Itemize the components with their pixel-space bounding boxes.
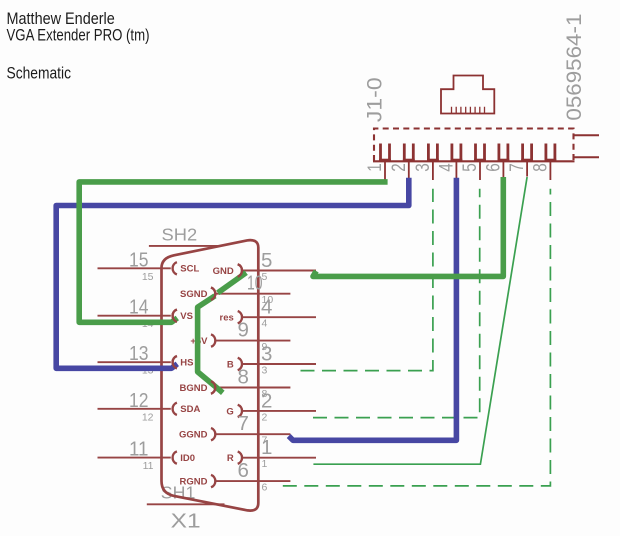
svg-text:X1: X1 [171,511,201,533]
svg-text:2: 2 [261,389,272,412]
svg-text:0569564-1: 0569564-1 [563,14,586,121]
svg-text:J1-0: J1-0 [364,77,387,122]
svg-text:11: 11 [143,460,154,472]
svg-text:2: 2 [262,411,268,423]
svg-text:SDA: SDA [180,404,200,415]
svg-text:1: 1 [261,436,272,459]
svg-text:7: 7 [506,163,528,172]
svg-text:7: 7 [238,412,249,435]
svg-text:4: 4 [262,318,268,330]
svg-text:ID0: ID0 [180,453,195,464]
svg-text:1: 1 [262,458,268,470]
svg-text:11: 11 [129,438,149,461]
svg-text:12: 12 [129,389,149,412]
svg-text:8: 8 [238,366,249,389]
svg-text:HS: HS [180,358,193,369]
svg-text:Schematic: Schematic [7,64,72,83]
svg-text:13: 13 [129,342,149,365]
svg-text:12: 12 [142,411,154,423]
svg-text:G: G [226,406,233,417]
svg-text:SH2: SH2 [162,225,198,245]
svg-text:6: 6 [238,459,249,482]
svg-text:2: 2 [388,163,410,172]
svg-text:9: 9 [238,319,249,342]
svg-text:6: 6 [482,163,504,172]
svg-text:SCL: SCL [180,264,199,275]
svg-text:15: 15 [129,248,149,271]
svg-text:8: 8 [529,163,551,172]
svg-text:6: 6 [262,482,268,494]
svg-text:RGND: RGND [180,477,208,488]
svg-text:BGND: BGND [180,383,208,394]
svg-text:3: 3 [412,163,434,172]
svg-text:1: 1 [364,163,386,172]
svg-text:4: 4 [435,163,457,172]
svg-text:B: B [227,359,234,370]
svg-text:10: 10 [247,272,263,295]
svg-text:GGND: GGND [179,430,208,441]
svg-text:VS: VS [180,311,193,322]
svg-text:3: 3 [261,343,272,366]
svg-text:SGND: SGND [180,289,208,300]
svg-text:3: 3 [262,365,268,377]
svg-text:VGA Extender PRO (tm): VGA Extender PRO (tm) [7,26,150,45]
svg-text:15: 15 [142,271,154,283]
svg-text:GND: GND [213,266,234,277]
svg-text:14: 14 [129,296,149,319]
svg-text:4: 4 [261,296,272,319]
svg-text:R: R [227,453,234,464]
svg-text:res: res [220,313,234,324]
svg-text:5: 5 [459,163,481,172]
svg-text:5: 5 [261,249,272,272]
